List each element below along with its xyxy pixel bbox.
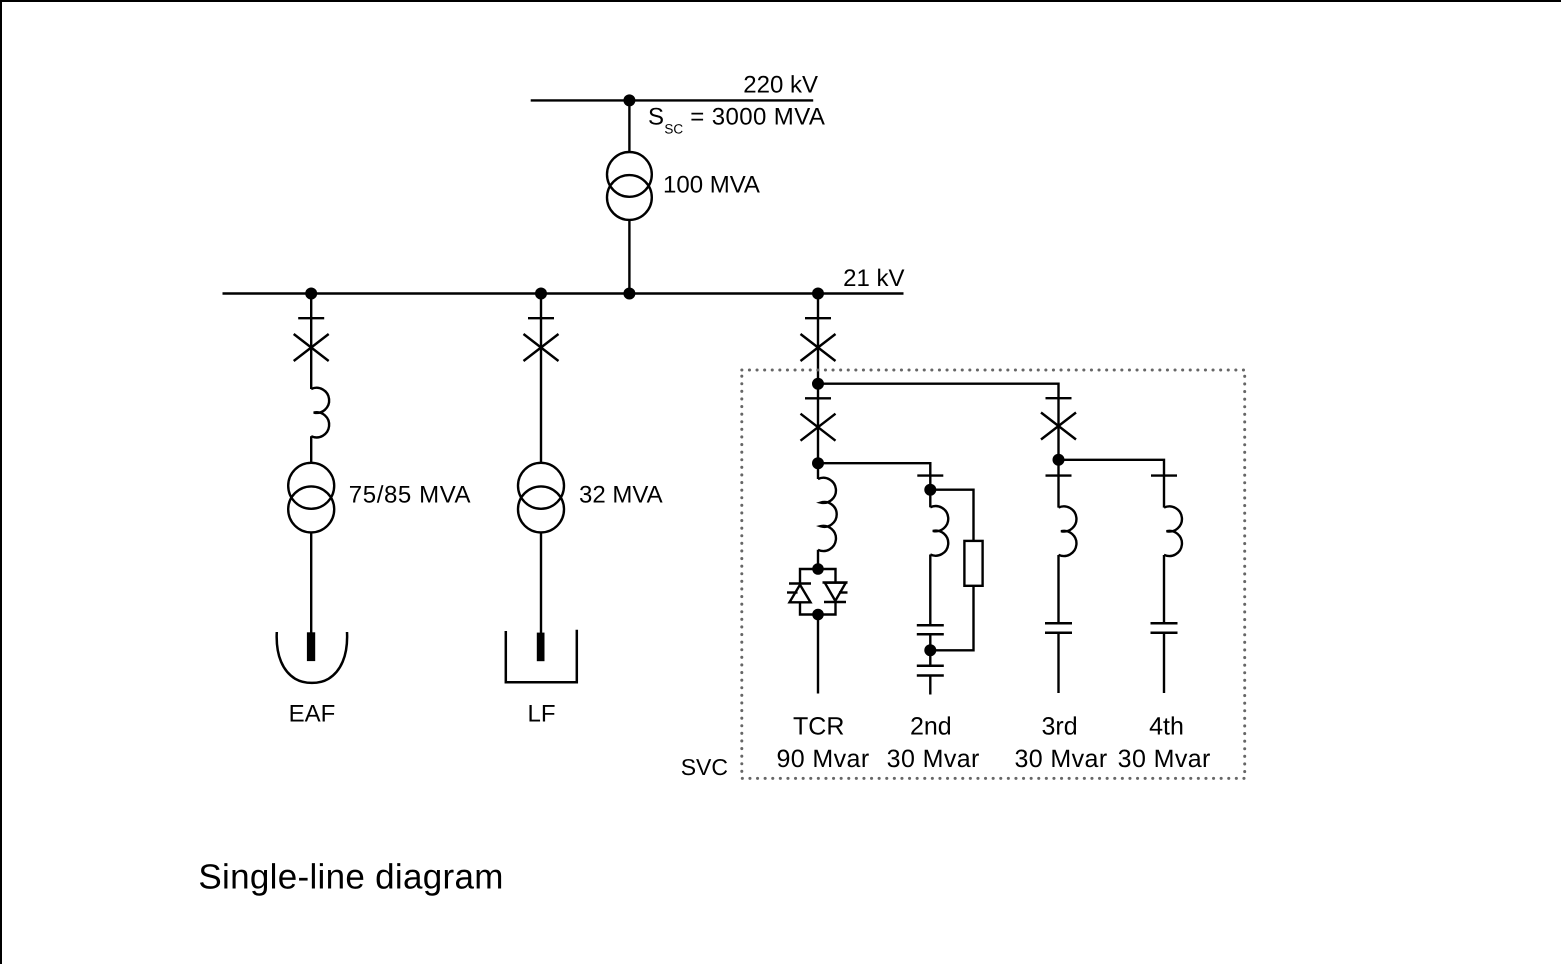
bus 21 kV <box>223 292 904 294</box>
wire T2 to EAF electrode <box>310 532 312 634</box>
wire 2nd node to resistor rail <box>930 490 973 541</box>
wire 3rd node to 4th branch <box>1059 460 1165 476</box>
wire branch LF vertical <box>540 294 542 463</box>
svg-text:SVC: SVC <box>681 754 728 780</box>
wire SVC header to 3rd-4th feeder <box>818 384 1059 398</box>
LF ladle container <box>506 630 577 683</box>
transformer T1 100 MVA <box>607 152 652 220</box>
wire coil to thyristor valve <box>817 550 819 569</box>
node bus220 junction <box>623 94 635 106</box>
node TCR feeder <box>812 457 824 469</box>
svg-text:3rd: 3rd <box>1042 713 1078 741</box>
wire 3rd branch vertical <box>1057 398 1059 460</box>
disconnector tick 4th branch <box>1151 474 1177 476</box>
svg-text:30 Mvar: 30 Mvar <box>1118 745 1211 773</box>
node TCR valve top <box>812 563 824 575</box>
wire TCR feeder vertical <box>817 384 819 464</box>
LF electrode <box>537 633 545 662</box>
svg-text:75/85 MVA: 75/85 MVA <box>349 482 471 509</box>
wire TCR valve to ground stub <box>817 615 819 694</box>
reactor coil 3rd branch <box>1059 506 1077 556</box>
transformer T2 75/85 MVA <box>288 463 334 533</box>
thyristor Q1 (left, pointing up) <box>787 584 811 603</box>
frame (screenshot edge) <box>0 0 1561 2</box>
node 2nd branch lower tap <box>924 644 936 656</box>
wire 2nd branch bottom stub <box>929 676 931 695</box>
wire branch SVC vertical <box>817 294 819 384</box>
reactor coil 2nd branch <box>930 506 948 556</box>
node TCR valve bottom <box>812 609 824 621</box>
disconnector tick branch LF <box>528 317 554 319</box>
wire T3 to LF electrode <box>540 532 542 634</box>
wire resistor to node <box>930 586 973 651</box>
disconnector tick 2nd branch <box>917 474 943 476</box>
wire 3rd branch bottom stub <box>1057 633 1059 693</box>
wire TCR node to 2nd branch <box>818 463 930 475</box>
EAF electrode <box>307 632 315 661</box>
svg-text:32 MVA: 32 MVA <box>579 482 663 509</box>
svg-text:EAF: EAF <box>289 700 336 727</box>
SVC dotted enclosure <box>742 370 1245 778</box>
wire coil to capacitor 4th <box>1163 555 1165 623</box>
svg-text:Single-line diagram: Single-line diagram <box>198 858 503 897</box>
breaker X 3rd feeder <box>1041 413 1076 440</box>
bus 220 kV <box>531 99 814 101</box>
wire coil to capacitor C1 <box>929 555 931 626</box>
svg-text:2nd: 2nd <box>910 713 952 741</box>
svg-text:30 Mvar: 30 Mvar <box>887 745 980 773</box>
wire T1 to bus 21 kV <box>628 220 630 294</box>
capacitor C3 3rd branch <box>1045 623 1072 633</box>
EAF furnace bowl <box>277 632 347 683</box>
wire branch EAF vertical <box>310 294 312 390</box>
svg-text:LF: LF <box>527 700 555 727</box>
wire 3rd node down <box>1057 460 1059 508</box>
capacitor C1 2nd branch <box>917 625 944 634</box>
reactor coil TCR (3 loops) <box>818 478 837 551</box>
wire 4th branch bottom stub <box>1163 633 1165 693</box>
svg-text:TCR: TCR <box>793 713 844 741</box>
transformer T3 32 MVA <box>518 463 564 533</box>
thyristor valve frame <box>800 569 836 615</box>
wire C1 to node <box>929 634 931 666</box>
wire 4th branch vertical <box>1163 476 1165 508</box>
disconnector tick TCR feeder <box>805 397 831 399</box>
node 3rd feeder <box>1053 454 1065 466</box>
breaker X branch SVC <box>801 334 836 361</box>
disconnector tick branch SVC <box>805 317 831 319</box>
node bus21 LF <box>535 288 547 300</box>
wire 2nd branch upper <box>929 476 931 508</box>
node bus21 T1 <box>623 288 635 300</box>
node SVC header <box>812 378 824 390</box>
breaker X branch LF <box>524 334 559 361</box>
disconnector tick 3rd feeder <box>1046 397 1072 399</box>
capacitor C4 4th branch <box>1151 623 1178 633</box>
reactor coil branch EAF <box>311 388 329 438</box>
svg-text:4th: 4th <box>1149 713 1184 741</box>
svg-text:21 kV: 21 kV <box>843 265 904 292</box>
resistor R 2nd branch <box>964 541 982 586</box>
node bus21 SVC <box>812 288 824 300</box>
reactor coil 4th branch <box>1164 506 1182 556</box>
wire coil to T2 <box>310 436 312 463</box>
svg-text:100 MVA: 100 MVA <box>663 172 760 199</box>
wire coil to capacitor 3rd <box>1057 555 1059 623</box>
svg-text:220 kV: 220 kV <box>743 72 818 99</box>
thyristor Q2 (right, pointing down) <box>823 583 848 603</box>
svg-text:90 Mvar: 90 Mvar <box>776 745 869 773</box>
svg-text:30 Mvar: 30 Mvar <box>1014 745 1107 773</box>
node 2nd branch tap <box>924 484 936 496</box>
breaker X TCR feeder <box>801 414 836 441</box>
disconnector tick branch EAF <box>298 317 324 319</box>
wire bus220 to T1 <box>628 100 630 152</box>
node bus21 EAF <box>305 288 317 300</box>
capacitor C2 2nd branch <box>917 666 944 676</box>
disconnector tick 3rd branch <box>1046 474 1072 476</box>
wire TCR node down to coil <box>817 463 819 479</box>
breaker X branch EAF <box>294 334 329 361</box>
